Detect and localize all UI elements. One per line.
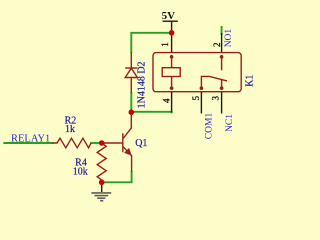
svg-text:K1: K1 (245, 75, 256, 87)
svg-text:2: 2 (212, 43, 222, 48)
svg-text:1k: 1k (65, 124, 75, 135)
svg-text:1: 1 (160, 42, 170, 47)
svg-text:RELAY1: RELAY1 (11, 134, 50, 145)
svg-text:Q1: Q1 (135, 138, 147, 149)
svg-text:NC1: NC1 (225, 114, 235, 132)
svg-text:COM1: COM1 (205, 113, 215, 140)
svg-text:10k: 10k (73, 166, 88, 177)
svg-text:4: 4 (162, 98, 172, 103)
svg-text:NO1: NO1 (224, 29, 234, 48)
svg-text:5V: 5V (162, 10, 176, 22)
svg-text:1N4148 D2: 1N4148 D2 (137, 61, 148, 108)
svg-text:5: 5 (191, 96, 201, 101)
svg-text:3: 3 (211, 96, 221, 101)
